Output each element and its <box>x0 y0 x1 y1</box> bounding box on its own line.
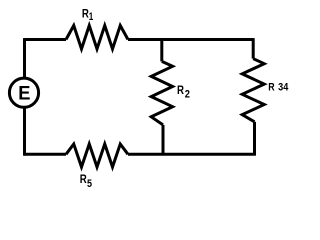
svg-text:2: 2 <box>185 88 190 100</box>
svg-text:5: 5 <box>87 178 92 190</box>
svg-text:R: R <box>177 83 184 97</box>
svg-text:R: R <box>268 82 274 94</box>
svg-text:E: E <box>18 82 30 104</box>
svg-text:1: 1 <box>89 11 94 23</box>
svg-text:34: 34 <box>278 82 289 94</box>
svg-text:R: R <box>80 172 87 186</box>
